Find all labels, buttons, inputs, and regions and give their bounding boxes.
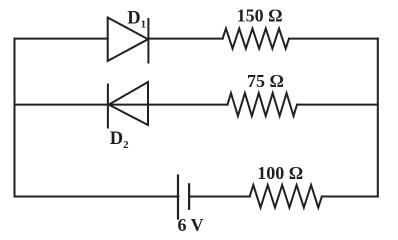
battery B1 6V	[178, 176, 189, 219]
diode D1	[108, 18, 149, 63]
resistor R2 75 ohm	[228, 93, 298, 116]
wire R2 to right rail	[297, 104, 378, 106]
wire top-left segment	[15, 38, 108, 40]
wire R3 to right rail	[322, 196, 378, 198]
wire middle branch left (passes through D2)	[15, 104, 228, 106]
wire D1 to R1	[148, 38, 222, 40]
wire battery to R3	[189, 196, 249, 198]
svg-text:150 Ω: 150 Ω	[237, 6, 283, 26]
resistor R3 100 ohm	[250, 185, 322, 208]
wire left rail	[14, 39, 16, 197]
svg-text:D2: D2	[110, 129, 129, 151]
wire bottom-left segment	[15, 196, 179, 198]
diode D2	[108, 82, 148, 128]
svg-text:75 Ω: 75 Ω	[247, 71, 284, 91]
svg-text:6 V: 6 V	[178, 215, 204, 235]
wire right rail	[377, 39, 379, 197]
resistor R1 150 ohm	[223, 29, 289, 49]
svg-text:100 Ω: 100 Ω	[257, 163, 303, 183]
svg-text:D1: D1	[127, 8, 146, 30]
wire R1 to right rail	[289, 38, 378, 40]
